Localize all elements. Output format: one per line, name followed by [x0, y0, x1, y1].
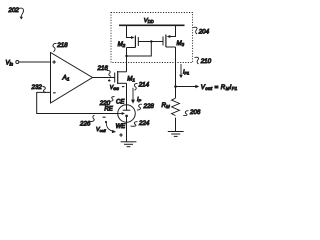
- svg-text:CE: CE: [116, 99, 125, 105]
- wire gate interconnect M2-M3: [138, 41, 163, 43]
- svg-text:204: 204: [198, 28, 210, 35]
- RE arrow inside: [118, 113, 123, 115]
- label 226: [79, 115, 95, 127]
- label 214: [134, 82, 149, 91]
- svg-text:RE: RE: [104, 107, 113, 113]
- node Vin terminal: [6, 60, 19, 66]
- label 220: [99, 97, 115, 107]
- CE electrode inside: [126, 105, 128, 110]
- op-amp A1: [51, 53, 93, 104]
- svg-text:IF1: IF1: [183, 70, 189, 76]
- output node junction: [174, 85, 177, 88]
- label 204: [193, 27, 210, 35]
- svg-text:IP: IP: [137, 97, 142, 103]
- svg-text:Vout = RMIF1: Vout = RMIF1: [201, 84, 238, 91]
- label 232: [31, 84, 47, 93]
- svg-text:WE: WE: [116, 124, 127, 130]
- svg-text:M2: M2: [118, 41, 126, 48]
- svg-text:RM: RM: [162, 102, 170, 109]
- label 210: [195, 57, 212, 65]
- svg-text:224: 224: [138, 120, 150, 127]
- svg-text:214: 214: [138, 82, 150, 89]
- wire M3 drain down to output node: [175, 47, 177, 87]
- svg-text:210: 210: [200, 58, 212, 65]
- value label VGS with polarity: [108, 79, 124, 91]
- transistor M1: [115, 71, 136, 84]
- wire diode connection gates to M2 drain: [127, 42, 152, 57]
- svg-text:218: 218: [56, 42, 68, 49]
- svg-text:VDD: VDD: [144, 18, 154, 24]
- wire op-amp output to M1 gate: [93, 77, 115, 79]
- label 218: [53, 42, 68, 52]
- transistor M2: [118, 25, 139, 48]
- label 216: [97, 65, 112, 76]
- svg-text:Vcell: Vcell: [96, 127, 106, 133]
- power rail VDD: [119, 24, 185, 26]
- figure label 202: [8, 7, 24, 20]
- resistor RM: [162, 87, 180, 132]
- label 206: [183, 109, 201, 116]
- svg-text:232: 232: [31, 84, 43, 91]
- junction gates node: [150, 40, 152, 42]
- svg-text:216: 216: [97, 65, 109, 72]
- svg-text:VGS: VGS: [110, 85, 119, 91]
- label 228: [137, 103, 154, 110]
- ground at RM: [168, 132, 184, 137]
- wire M1 drain up to M2 drain: [126, 48, 128, 72]
- WE electrode inside: [126, 116, 128, 122]
- wire M1 source down to cell CE: [126, 83, 128, 105]
- svg-text:Vin: Vin: [6, 60, 14, 66]
- label Vcell with polarity: [96, 117, 123, 137]
- svg-text:206: 206: [189, 109, 201, 116]
- current arrow IP: [131, 88, 142, 104]
- label 224: [131, 120, 150, 127]
- svg-text:M3: M3: [177, 40, 185, 47]
- wire Vin to op-amp + input: [19, 61, 51, 63]
- electrochemical cell 228: [118, 105, 136, 123]
- junction M2 drain node: [125, 55, 127, 57]
- ground at WE: [121, 142, 137, 147]
- current arrow IF1: [179, 64, 189, 78]
- dashed box 204 current mirror: [111, 13, 193, 63]
- wire WE to ground: [126, 122, 128, 142]
- wire and arrow to Vout: [176, 86, 197, 88]
- svg-text:202: 202: [8, 7, 20, 14]
- transistor M3: [163, 25, 185, 47]
- svg-text:228: 228: [143, 103, 155, 110]
- svg-text:226: 226: [79, 120, 91, 127]
- wire feedback: inverting input to RE: [37, 92, 118, 113]
- svg-text:M1: M1: [127, 75, 135, 82]
